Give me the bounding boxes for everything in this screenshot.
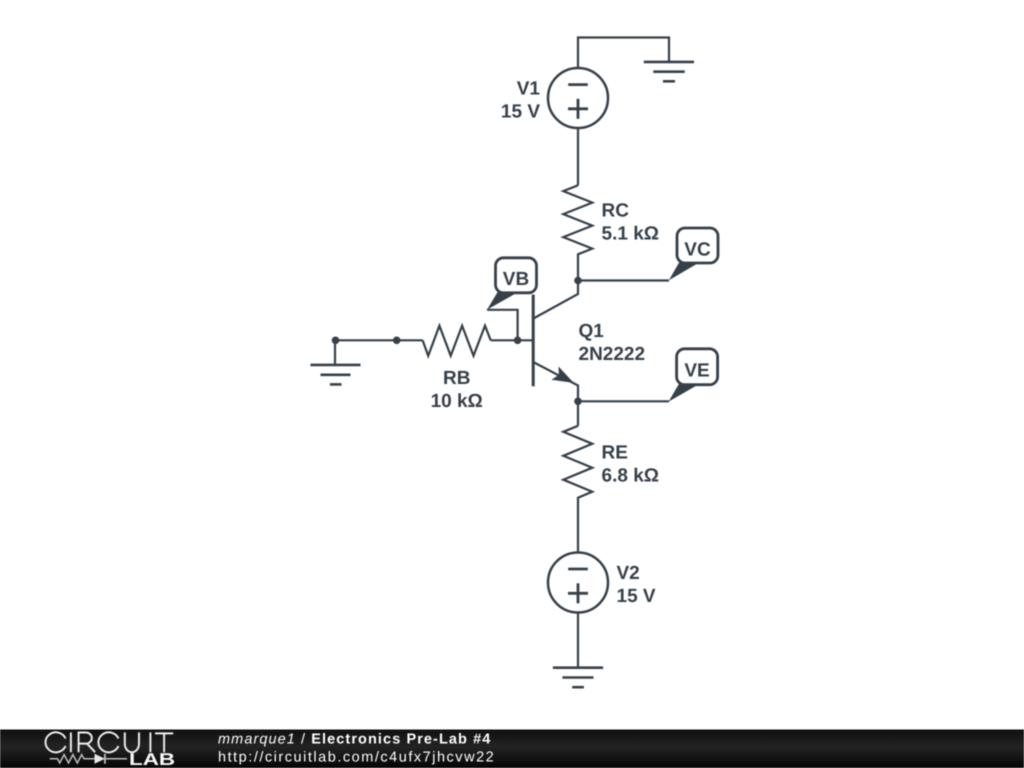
svg-text:VE: VE (684, 360, 709, 381)
svg-text:http://circuitlab.com/c4ufx7jh: http://circuitlab.com/c4ufx7jhcvw22 (218, 750, 495, 766)
svg-text:VB: VB (503, 269, 529, 290)
svg-text:RB: RB (443, 368, 470, 389)
svg-text:V2: V2 (617, 563, 640, 584)
svg-text:6.8 kΩ: 6.8 kΩ (602, 466, 660, 487)
svg-text:VC: VC (684, 239, 711, 260)
svg-text:mmarque1 / Electronics Pre-Lab: mmarque1 / Electronics Pre-Lab #4 (218, 731, 491, 747)
svg-text:V1: V1 (517, 79, 541, 100)
svg-text:5.1 kΩ: 5.1 kΩ (602, 224, 660, 245)
svg-text:2N2222: 2N2222 (579, 344, 646, 365)
svg-text:15 V: 15 V (501, 102, 540, 123)
svg-text:RE: RE (602, 443, 628, 464)
svg-text:10 kΩ: 10 kΩ (431, 391, 483, 412)
svg-text:15 V: 15 V (617, 586, 656, 607)
svg-text:RC: RC (602, 201, 630, 222)
svg-text:Q1: Q1 (579, 321, 605, 342)
svg-text:LAB: LAB (129, 750, 175, 768)
